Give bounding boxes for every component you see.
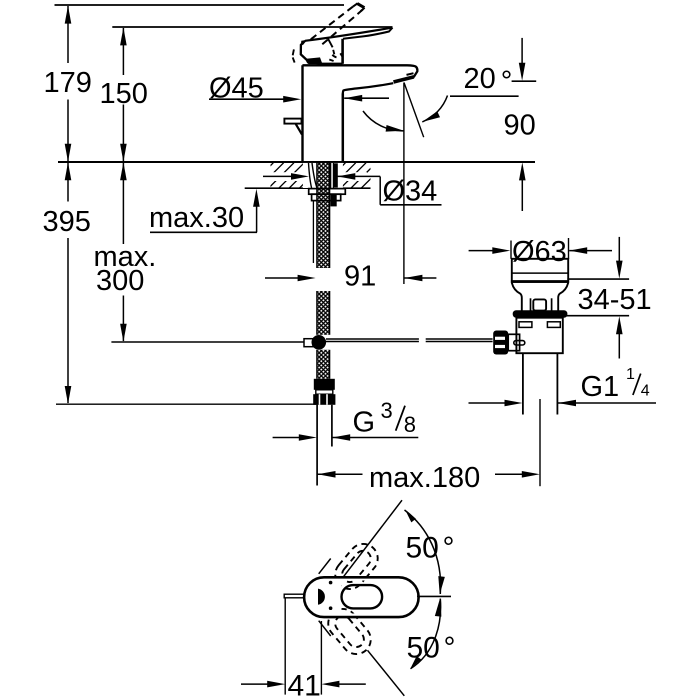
svg-text:°: °: [444, 632, 456, 665]
svg-text:50: 50: [406, 532, 439, 565]
svg-text:Ø34: Ø34: [383, 176, 438, 208]
svg-text:300: 300: [96, 265, 144, 297]
svg-text:°: °: [501, 65, 513, 97]
svg-text:°: °: [443, 532, 455, 565]
svg-text:max.30: max.30: [149, 202, 244, 234]
svg-text:150: 150: [100, 78, 148, 110]
svg-text:G: G: [353, 407, 376, 439]
svg-text:8: 8: [404, 412, 416, 437]
svg-text:Ø63: Ø63: [512, 236, 567, 268]
svg-text:34-51: 34-51: [578, 284, 652, 316]
svg-text:179: 179: [44, 67, 92, 99]
svg-text:20: 20: [464, 63, 496, 95]
svg-text:91: 91: [344, 261, 376, 293]
svg-text:4: 4: [641, 383, 650, 400]
svg-text:3: 3: [381, 398, 393, 423]
svg-text:1: 1: [626, 366, 635, 383]
svg-text:90: 90: [504, 110, 536, 142]
svg-text:41: 41: [288, 670, 321, 700]
svg-text:max.180: max.180: [369, 462, 480, 494]
svg-text:395: 395: [43, 206, 91, 238]
svg-text:G1: G1: [581, 371, 620, 403]
svg-text:50: 50: [407, 632, 440, 665]
